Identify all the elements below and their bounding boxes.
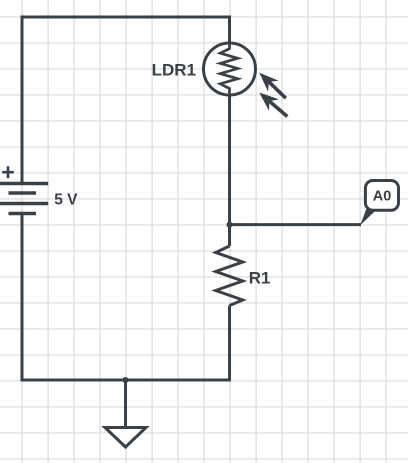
svg-text:5 V: 5 V <box>54 192 78 209</box>
svg-text:R1: R1 <box>249 269 271 288</box>
svg-text:LDR1: LDR1 <box>152 61 196 80</box>
svg-text:A0: A0 <box>373 189 392 205</box>
